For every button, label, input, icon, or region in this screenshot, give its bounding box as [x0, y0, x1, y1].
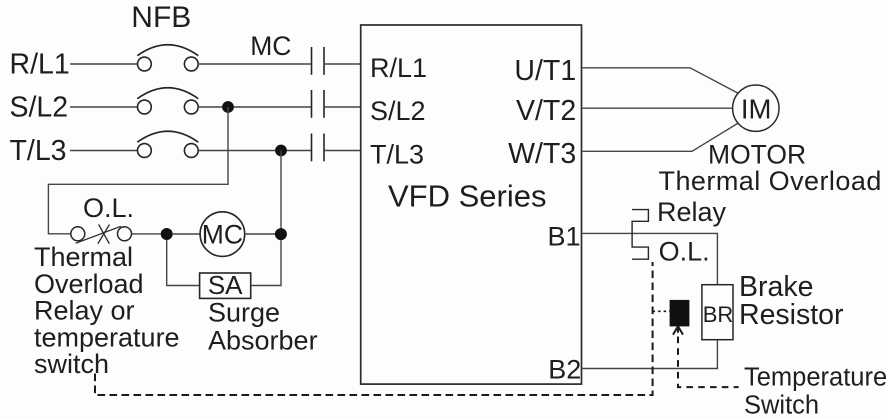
VFD Series box [361, 25, 582, 384]
contact MC pole 1 [312, 47, 325, 75]
svg-text:switch: switch [34, 349, 109, 379]
svg-text:T/L3: T/L3 [10, 135, 67, 167]
wire MC contact to VFD row 3 [324, 150, 361, 152]
wire control branch from S/L2 node down and left to O.L. contact [48, 107, 228, 234]
wire T/L3 to NFB [70, 150, 137, 152]
svg-text:Overload: Overload [34, 269, 144, 299]
svg-text:U/T1: U/T1 [514, 55, 576, 87]
arrowhead up to sensor [673, 326, 683, 334]
breaker NFB pole 1 [137, 45, 198, 71]
svg-text:VFD Series: VFD Series [388, 179, 546, 214]
wire NFB to MC contact row 2 [198, 106, 311, 108]
wire S/L2 to NFB [70, 106, 137, 108]
wire U/T1 to motor [582, 68, 737, 93]
brake resistor BR box [702, 285, 733, 340]
wire MC contact to VFD row 2 [324, 106, 361, 108]
svg-text:T/L3: T/L3 [370, 140, 424, 170]
wire R/L1 to NFB [70, 63, 137, 65]
surge absorber SA box [200, 273, 251, 298]
svg-text:SA: SA [208, 270, 243, 300]
wire O.L. contact to node [132, 233, 161, 235]
svg-text:S/L2: S/L2 [10, 92, 69, 124]
node junction on S/L2 [222, 101, 234, 113]
motor IM [733, 85, 779, 131]
wire SA branch left [167, 240, 200, 286]
svg-text:Temperature: Temperature [744, 363, 886, 391]
wire B2 from brake resistor [582, 340, 717, 369]
svg-text:R/L1: R/L1 [370, 53, 427, 83]
svg-text:Brake: Brake [739, 271, 813, 303]
svg-text:MC: MC [250, 31, 291, 61]
svg-text:MOTOR: MOTOR [708, 139, 806, 169]
wire SA branch right [251, 240, 281, 286]
svg-text:S/L2: S/L2 [370, 96, 426, 126]
contact MC pole 2 [312, 90, 325, 118]
dashed link from switch text to O.L. meander [95, 262, 653, 395]
svg-text:Thermal: Thermal [34, 242, 133, 272]
node junction on T/L3 [275, 145, 287, 157]
svg-text:Switch: Switch [744, 392, 819, 419]
svg-text:B2: B2 [548, 354, 581, 384]
dotted stub to sensor square [653, 310, 670, 312]
svg-text:NFB: NFB [131, 1, 191, 34]
wire V/T2 to motor [582, 107, 732, 109]
wire control branch from T/L3 node down to MC coil node [280, 151, 282, 235]
contact MC pole 3 [312, 134, 325, 162]
breaker NFB pole 2 [137, 88, 198, 114]
wire MC contact to VFD row 1 [324, 63, 361, 65]
svg-text:Relay: Relay [657, 197, 727, 227]
svg-text:IM: IM [741, 93, 772, 124]
contact O.L. thermal relay (meander symbol) [632, 210, 648, 260]
svg-text:Absorber: Absorber [208, 326, 318, 356]
wire MC coil to node [245, 233, 275, 235]
svg-text:W/T3: W/T3 [508, 138, 576, 170]
svg-text:temperature: temperature [34, 322, 180, 352]
svg-text:V/T2: V/T2 [516, 95, 576, 127]
svg-text:O.L.: O.L. [659, 237, 710, 267]
svg-text:BR: BR [703, 302, 734, 327]
wire NFB to MC contact row 3 [198, 150, 311, 152]
wire node to MC coil [173, 233, 200, 235]
svg-text:Resistor: Resistor [739, 299, 844, 331]
node after MC coil [275, 228, 287, 240]
coil MC (contactor coil) [200, 212, 245, 257]
svg-text:Surge: Surge [208, 298, 280, 328]
svg-text:R/L1: R/L1 [10, 49, 70, 81]
svg-text:O.L.: O.L. [83, 193, 134, 223]
svg-text:B1: B1 [547, 221, 580, 251]
contact O.L. thermal overload (circles, blade and X) [71, 224, 132, 243]
dashed arrow to temperature switch label [678, 337, 739, 388]
wire B1 to brake resistor [582, 233, 717, 284]
temperature sensor black square [670, 300, 690, 327]
breaker NFB pole 3 [137, 131, 198, 157]
svg-text:Relay or: Relay or [34, 296, 135, 326]
wire NFB to MC contact row 1 [198, 63, 311, 65]
node before MC coil [161, 228, 173, 240]
wire W/T3 to motor [582, 123, 737, 151]
svg-text:Thermal Overload: Thermal Overload [659, 166, 882, 196]
svg-text:MC: MC [202, 219, 243, 249]
